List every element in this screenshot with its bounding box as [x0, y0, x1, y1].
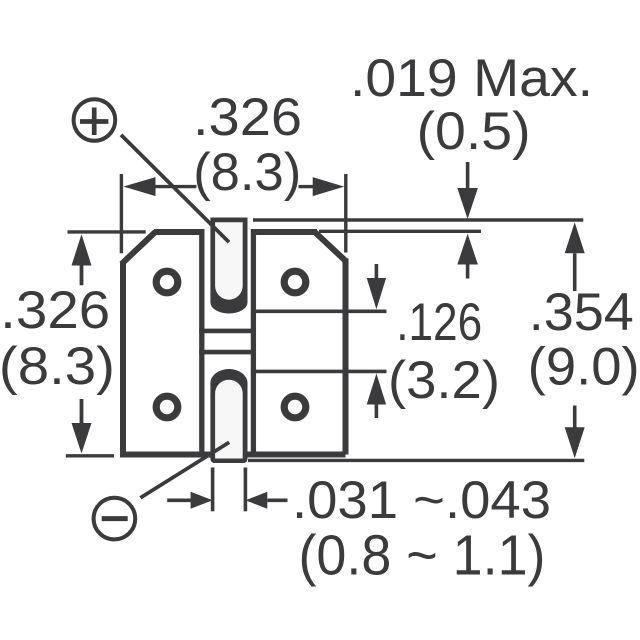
svg-text:.031 ~.043: .031 ~.043 [292, 471, 551, 530]
0.126 dim: up arrow [367, 374, 386, 405]
left height dim: down arrow [72, 423, 92, 454]
top width dim: left extension line [120, 174, 123, 253]
svg-text:(0.5): (0.5) [417, 102, 531, 161]
polarity minus symbol [94, 442, 230, 539]
svg-text:(0.8 ~ 1.1): (0.8 ~ 1.1) [299, 524, 546, 588]
svg-text:.354: .354 [529, 283, 634, 342]
svg-text:.326: .326 [193, 88, 302, 147]
svg-text:(9.0): (9.0) [528, 338, 640, 397]
mounting hole top-left [156, 271, 178, 293]
0.031 dim: left tick [211, 468, 215, 512]
center channel left line [199, 229, 204, 457]
bridge upper line [199, 329, 256, 334]
0.031 dim: right arrow [245, 492, 267, 509]
0.031 dim: left arrow [191, 492, 213, 509]
left height dim: up arrow [72, 234, 92, 265]
0.126 dim: down arrow shaft [375, 264, 379, 279]
bridge lower line [199, 350, 256, 355]
left height dim: upper shaft [80, 265, 84, 286]
0.019 dim: down arrow shaft [466, 162, 470, 189]
0.031 dim: left arrow shaft [167, 498, 191, 502]
top width dim line left segment [154, 185, 196, 188]
0.126 dim: upper reference line [255, 309, 387, 313]
left height dim: top tick [68, 230, 146, 233]
capacitor body outline [120, 232, 347, 455]
svg-text:(8.3): (8.3) [0, 337, 115, 396]
0.031 dim: right tick [244, 468, 248, 512]
top width dim arrow right [313, 177, 345, 196]
top width dim line right segment [299, 185, 314, 188]
svg-text:.326: .326 [0, 281, 110, 340]
left height dim: bottom tick [66, 454, 114, 457]
mounting hole top-right [284, 271, 306, 293]
svg-text:(3.2): (3.2) [388, 351, 500, 410]
0.019 dim: up arrow shaft [466, 265, 470, 279]
0.354 dim: up arrow [565, 222, 585, 253]
body top reference line (right) [319, 230, 481, 233]
top width dim: right extension line [344, 174, 347, 253]
0.126 dim: up arrow shaft [375, 405, 379, 419]
minus leader line [140, 442, 229, 498]
0.354 dim: lower shaft [573, 406, 577, 428]
0.126 dim: lower reference line [255, 370, 387, 374]
mounting hole bottom-right [284, 396, 306, 418]
plus leader line [121, 135, 229, 242]
0.354 dim: upper shaft [573, 253, 577, 291]
0.019 dim: up arrow [457, 234, 478, 265]
bottom reference line (terminal bottom level) [248, 459, 584, 462]
mounting hole bottom-left [156, 396, 178, 418]
0.126 dim: down arrow [367, 278, 386, 309]
anode terminal slot (top) [210, 218, 247, 314]
top width dim arrow left [123, 177, 155, 196]
polarity plus symbol [74, 99, 229, 242]
0.354 dim: down arrow [565, 427, 585, 458]
0.031 dim: right arrow shaft [267, 498, 287, 502]
center channel right line [251, 229, 256, 457]
svg-text:.019 Max.: .019 Max. [350, 49, 593, 108]
svg-text:(8.3): (8.3) [193, 143, 301, 202]
top reference line (terminal top level) [253, 218, 583, 221]
left height dim: lower shaft [80, 399, 84, 424]
0.019 dim: down arrow [457, 188, 478, 219]
cathode terminal slot (bottom) [210, 369, 247, 463]
svg-text:.126: .126 [396, 293, 482, 352]
